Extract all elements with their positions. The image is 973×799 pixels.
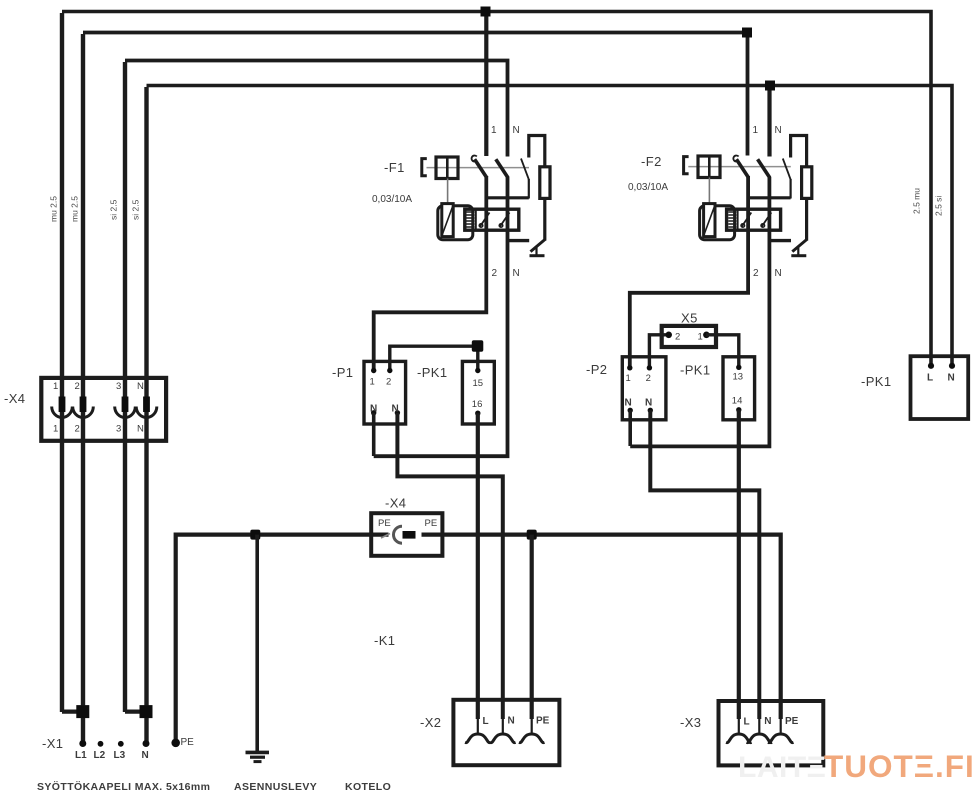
wire ground drop [255, 535, 259, 753]
P1 N left drop [372, 413, 376, 456]
svg-text:L1: L1 [75, 750, 87, 761]
PE bus and X4 PE block [176, 496, 781, 762]
F1 test resistor branch top [529, 136, 545, 168]
F1 pole 1 lever [475, 159, 487, 178]
svg-text:N: N [764, 716, 771, 727]
F2 test resistor branch top [791, 136, 807, 168]
X4 terminal 2 socket [73, 407, 94, 418]
svg-text:13: 13 [733, 372, 744, 383]
P1 N left dot [371, 410, 376, 415]
wire bus2 left vertical to X1 L1 [81, 34, 85, 743]
F1 CT winding hooks [480, 213, 490, 227]
F2 test resistor [802, 167, 812, 199]
F1 trip coil connector [447, 179, 449, 205]
X5 box [662, 326, 716, 347]
svg-text:N: N [142, 750, 149, 761]
svg-text:N: N [645, 398, 652, 409]
svg-text:L3: L3 [114, 750, 126, 761]
X2 PE wire tip [531, 718, 533, 734]
svg-text:1: 1 [370, 377, 375, 388]
node PE ground junction [250, 530, 260, 540]
X1 bottom terminals [42, 705, 194, 761]
svg-text:N: N [508, 716, 515, 727]
RCD F1 group [372, 125, 550, 456]
X2 box [420, 700, 559, 765]
X4 terminal 1 socket [52, 407, 73, 418]
svg-text:1: 1 [491, 125, 497, 136]
F1 resistor bottom wire [543, 198, 546, 240]
wire F2 N feed [767, 86, 771, 157]
svg-text:L: L [927, 373, 933, 384]
wire L1 top bus to right PK1 L [62, 12, 931, 365]
svg-text:N: N [392, 404, 399, 415]
P1 / PK1 group [332, 340, 503, 719]
wire L1 left vertical [60, 13, 64, 712]
X4 PE socket arc [394, 526, 403, 543]
X3 box outline [719, 701, 824, 765]
svg-text:-F2: -F2 [641, 154, 662, 169]
X4 PE plug [403, 531, 416, 539]
X1 N terminal dot [143, 740, 150, 747]
svg-text:ASENNUSLEVY: ASENNUSLEVY [234, 781, 317, 793]
svg-text:-P1: -P1 [332, 365, 353, 380]
node junction top bus1/F1 [481, 7, 491, 17]
P1 pin1 dot [371, 368, 376, 373]
X3 N socket [747, 734, 773, 743]
P1 box [364, 361, 406, 424]
svg-text:PE: PE [181, 737, 195, 748]
svg-text:-F1: -F1 [384, 160, 405, 175]
svg-text:-X4: -X4 [385, 496, 406, 511]
X3 L socket [726, 734, 752, 743]
X2 N socket [490, 734, 516, 743]
X2 N wire tip [502, 718, 504, 734]
svg-text:N: N [137, 424, 144, 435]
svg-text:PE: PE [785, 716, 799, 727]
X4 terminal 2 plug [80, 397, 87, 413]
svg-text:mu 2.5: mu 2.5 [49, 196, 59, 222]
P2 box [622, 357, 666, 420]
svg-text:-X4: -X4 [4, 391, 25, 406]
wire top bus 3 to F1 N pole [125, 61, 508, 157]
svg-text:TUOTΞ.FI: TUOTΞ.FI [824, 748, 973, 784]
svg-text:2: 2 [492, 268, 498, 279]
wire jog L1 bottom [62, 709, 83, 713]
X2 L wire tip [477, 718, 479, 734]
svg-text:N: N [775, 268, 782, 279]
P2 N right dot [648, 408, 653, 413]
PK1 pin15 dot [475, 368, 480, 373]
svg-text:-PK1: -PK1 [861, 374, 892, 389]
svg-text:15: 15 [473, 378, 484, 389]
svg-text:N: N [370, 404, 377, 415]
svg-text:mu 2.5: mu 2.5 [70, 196, 80, 222]
X3 PE socket [768, 734, 794, 743]
F2 resistor bottom wire [805, 198, 808, 240]
P1 N right wire to X2 N [397, 413, 502, 719]
wire jog N bottom [125, 709, 146, 713]
node corner dot P1pin2/PK1-15 [472, 340, 484, 352]
F2 test switch lever [783, 159, 791, 181]
F1 bracket [422, 159, 427, 176]
F1 current transformer [465, 209, 519, 230]
PK1 left box [462, 361, 494, 424]
F2 pole N lever [758, 159, 770, 178]
PK1 pin13 dot [736, 365, 741, 370]
X3 N wire tip [758, 718, 760, 734]
wire F1 pole1 feed [484, 12, 488, 157]
F1 trip coil housing [438, 206, 473, 240]
svg-text:-X3: -X3 [680, 715, 701, 730]
svg-text:3: 3 [116, 381, 121, 392]
node L1 junction square [76, 705, 89, 718]
X1 PE terminal dot [171, 739, 180, 748]
F1 test switch lever [521, 159, 529, 181]
svg-text:0,03/10A: 0,03/10A [628, 182, 668, 193]
F1 test button [436, 157, 458, 179]
X4 terminal 1 plug [59, 397, 66, 413]
svg-text:N: N [513, 125, 520, 136]
svg-text:N: N [948, 373, 955, 384]
svg-text:PE: PE [425, 518, 438, 529]
F1 pole N lever [496, 159, 508, 178]
svg-text:2: 2 [75, 381, 80, 392]
X4 box [41, 378, 166, 441]
svg-text:-K1: -K1 [374, 633, 395, 648]
svg-text:-PK1: -PK1 [417, 365, 448, 380]
svg-text:1: 1 [53, 381, 58, 392]
X4 terminal N plug [143, 397, 150, 413]
RCD F2 group [628, 125, 812, 446]
svg-text:PE: PE [378, 518, 391, 529]
P1 pin2 dot [387, 368, 392, 373]
PK1 mid box [723, 357, 755, 420]
svg-text:2: 2 [75, 424, 80, 435]
X1 L3 terminal dot [118, 741, 124, 747]
svg-text:N: N [775, 125, 782, 136]
svg-text:si 2.5: si 2.5 [131, 199, 141, 220]
wire bus4 left vertical to X1 N [144, 87, 148, 743]
F2 pole N out wire to P2 N [630, 177, 769, 446]
watermark [738, 748, 973, 784]
P1 N right dot [395, 410, 400, 415]
wire top bus 4 to right PK1 N [147, 86, 953, 365]
X2 PE socket [519, 734, 545, 743]
PK1 pin16 dot [475, 411, 480, 416]
svg-text:2.5 si: 2.5 si [934, 196, 944, 216]
svg-text:1: 1 [753, 125, 759, 136]
F1 test resistor [540, 167, 550, 199]
P2 pin2 wire to X5 [649, 335, 668, 368]
X5 pin1 wire to PK1-13 [706, 335, 738, 367]
X1 L1 terminal dot [79, 740, 86, 747]
F2 current transformer [727, 209, 781, 230]
svg-text:KOTELO: KOTELO [345, 781, 391, 793]
svg-text:SYÖTTÖKAAPELI MAX. 5x16mm: SYÖTTÖKAAPELI MAX. 5x16mm [37, 780, 210, 793]
svg-text:1: 1 [626, 373, 631, 384]
X4 PE thin tick [381, 534, 390, 539]
svg-text:-PK1: -PK1 [680, 363, 711, 378]
svg-text:-X1: -X1 [42, 736, 63, 751]
PK1 pin16 wire to X2 L [476, 413, 480, 719]
terminal block X4 left [4, 378, 166, 441]
svg-text:0,03/10A: 0,03/10A [372, 194, 412, 205]
svg-text:N: N [513, 268, 520, 279]
svg-text:3: 3 [116, 424, 121, 435]
svg-text:2: 2 [646, 373, 651, 384]
F1 trip coil [442, 204, 453, 237]
svg-text:2: 2 [386, 377, 391, 388]
wire top bus 2 to F2 pole1 [83, 33, 748, 156]
X1 L2 terminal dot [98, 741, 104, 747]
wire PE drop to X2 [530, 535, 534, 719]
F1 test pushbutton switch [508, 239, 530, 242]
X2 L socket [465, 734, 491, 743]
X5 pin2 dot [665, 332, 672, 339]
X4 terminal N socket [136, 407, 157, 418]
bottom captions [37, 633, 395, 793]
F2 mechanical linkage line [688, 166, 791, 168]
PE bus right with drop to X3 PE [422, 535, 781, 719]
F2 CT winding hooks [742, 213, 752, 227]
svg-text:L2: L2 [94, 750, 106, 761]
P2 pin2 dot [647, 365, 652, 370]
node PE X2 junction [527, 530, 537, 540]
svg-text:LAITΞ: LAITΞ [738, 751, 826, 784]
svg-text:L: L [483, 716, 489, 727]
F2 trip coil connector [708, 178, 710, 205]
X4 terminal 3 socket [115, 407, 136, 418]
PE bus left with drop to X1 PE [176, 535, 389, 743]
F2 test button [698, 156, 720, 178]
svg-text:-P2: -P2 [586, 362, 607, 377]
node junction bus4/F2 N [765, 81, 775, 91]
F2 trip coil housing [700, 206, 735, 240]
P2 / X5 / PK1 group [586, 311, 759, 720]
P2 pin1 dot [627, 365, 632, 370]
PK1 pin14 wire to X3 L [737, 410, 741, 719]
X3 box [680, 701, 823, 765]
svg-text:N: N [137, 381, 144, 392]
node N junction square [140, 705, 153, 718]
P1 pin2 stub [390, 346, 478, 370]
X3 PE wire tip [780, 718, 782, 734]
right PK1 [861, 356, 968, 419]
svg-text:14: 14 [732, 396, 743, 407]
F1 mechanical linkage line [427, 167, 530, 169]
P2 N left dot [628, 408, 633, 413]
X5 pin1 dot [703, 332, 710, 339]
F2 trip coil [704, 204, 715, 237]
wire bus3 left vertical [123, 62, 127, 712]
X4 PE box [371, 513, 442, 556]
PK1 pin14 dot [736, 407, 741, 412]
X4 terminal 3 plug [122, 397, 129, 413]
F1 pole N out wire to P1 N [374, 177, 508, 456]
svg-text:2: 2 [753, 268, 759, 279]
F2 bracket [684, 157, 689, 174]
svg-text:2: 2 [675, 332, 680, 343]
F2 pole1 out wire to P2 pin1 [630, 176, 748, 367]
X3 L wire tip [738, 718, 740, 734]
P2 N right wire to X3 N [650, 410, 759, 719]
node junction bus2/F2 [742, 28, 752, 38]
right PK1 N dot [949, 363, 955, 369]
svg-text:L: L [744, 717, 750, 728]
ground symbol [246, 751, 270, 755]
svg-text:si 2.5: si 2.5 [109, 199, 119, 220]
X2 box outline [453, 700, 559, 765]
svg-text:-X2: -X2 [420, 715, 441, 730]
P2 N left drop [628, 410, 632, 446]
svg-text:PE: PE [536, 716, 550, 727]
svg-text:1: 1 [698, 332, 703, 343]
svg-text:16: 16 [472, 399, 483, 410]
svg-text:X5: X5 [681, 311, 698, 326]
svg-text:1: 1 [53, 424, 58, 435]
F2 test pushbutton switch [769, 239, 791, 242]
F2 pole 1 lever [736, 159, 748, 178]
right PK1 L dot [928, 363, 934, 369]
svg-text:N: N [625, 398, 632, 409]
right PK1 box [911, 356, 969, 419]
svg-text:2.5 mu: 2.5 mu [912, 188, 922, 214]
F1 pole1 out wire to P1 pin1 [374, 176, 487, 370]
